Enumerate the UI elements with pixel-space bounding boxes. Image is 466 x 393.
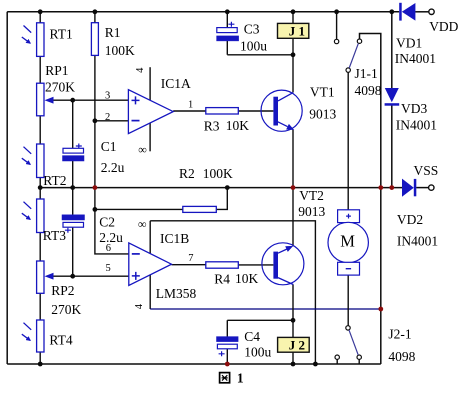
wire R4 to VT2 base bbox=[238, 264, 273, 266]
motor M bbox=[338, 210, 360, 223]
resistor R3 body bbox=[206, 108, 239, 114]
relay contact J1-1 bbox=[334, 39, 338, 43]
svg-text:4: 4 bbox=[135, 67, 146, 73]
capacitor C1 plus plate bbox=[63, 148, 84, 153]
potentiometer RP1 body bbox=[37, 83, 44, 116]
svg-text:4098: 4098 bbox=[355, 83, 382, 98]
wire IC1B power line bbox=[149, 221, 151, 309]
capacitor C3 polarity plus bbox=[228, 22, 234, 27]
terminal VDD bbox=[429, 9, 434, 14]
wire C4 node horizontal bbox=[227, 319, 293, 321]
capacitor C3 plus plate bbox=[217, 28, 237, 33]
svg-text:2: 2 bbox=[105, 112, 110, 123]
wire pin2 stub bbox=[95, 120, 128, 122]
svg-text:∞: ∞ bbox=[138, 217, 147, 231]
transistor VT1 base bar bbox=[273, 97, 278, 126]
relay contact J2-1 bbox=[346, 326, 350, 330]
wire line B right vertical bbox=[360, 34, 381, 365]
terminal VSS bbox=[429, 185, 434, 190]
svg-text:RT4: RT4 bbox=[49, 333, 72, 348]
svg-text:VT1: VT1 bbox=[310, 84, 335, 99]
svg-text:9013: 9013 bbox=[309, 106, 336, 121]
svg-text:1: 1 bbox=[188, 100, 193, 111]
light arrows RT2 bbox=[22, 147, 31, 165]
wire VT2 collector down bbox=[292, 284, 294, 337]
wire VT1 emitter to mid rail bbox=[292, 130, 294, 188]
capacitor C2 plus plate bbox=[63, 222, 84, 227]
wire line A VD3 branch bbox=[391, 12, 393, 88]
capacitor C3 minus plate bbox=[217, 36, 239, 41]
svg-text:3: 3 bbox=[105, 91, 110, 102]
svg-text:4: 4 bbox=[134, 303, 145, 309]
capacitor C1 polarity plus bbox=[76, 144, 82, 149]
wire VT2 emitter to mid rail bbox=[292, 188, 294, 247]
wire pin5 node bbox=[53, 275, 129, 277]
svg-text:R1: R1 bbox=[105, 25, 121, 40]
wire R1 column bbox=[95, 12, 129, 254]
wire IC1B output to R4 bbox=[172, 264, 206, 266]
capacitor C4 minus plate bbox=[217, 337, 239, 342]
svg-text:LM358: LM358 bbox=[156, 286, 197, 301]
light arrows RT4 bbox=[22, 323, 31, 341]
svg-text:100K: 100K bbox=[105, 43, 135, 58]
op-amp IC1B plus input sign bbox=[132, 272, 140, 280]
wire C4 column bbox=[226, 320, 228, 364]
op-amp IC1B minus input sign bbox=[132, 253, 140, 255]
wire left frame bbox=[6, 12, 8, 364]
wire IC1A output to R3 bbox=[173, 110, 206, 112]
svg-text:VD2: VD2 bbox=[397, 212, 423, 227]
svg-text:5: 5 bbox=[106, 263, 111, 274]
svg-text:J1-1: J1-1 bbox=[355, 66, 378, 81]
svg-text:RT3: RT3 bbox=[43, 228, 66, 243]
wire pin3 node bbox=[53, 99, 128, 101]
svg-text:VD1: VD1 bbox=[396, 36, 422, 51]
svg-text:RP2: RP2 bbox=[51, 283, 74, 298]
wire J2 to bottom rail bbox=[292, 352, 294, 364]
op-amp IC1A minus input sign bbox=[132, 120, 140, 122]
svg-text:R2: R2 bbox=[179, 166, 195, 181]
svg-text:RP1: RP1 bbox=[45, 63, 68, 78]
svg-text:C4: C4 bbox=[244, 329, 260, 344]
light arrows RT1 bbox=[22, 26, 31, 44]
capacitor C2 polarity plus bbox=[65, 228, 71, 233]
wire bottom rail bbox=[7, 363, 381, 365]
svg-text:270K: 270K bbox=[51, 302, 81, 317]
svg-text:J 2: J 2 bbox=[289, 337, 305, 352]
svg-text:∞: ∞ bbox=[138, 143, 147, 157]
wire C3 to VT1 collector node bbox=[227, 54, 293, 56]
capacitor C4 plus plate bbox=[217, 344, 237, 349]
svg-text:9013: 9013 bbox=[298, 204, 325, 219]
svg-text:VSS: VSS bbox=[414, 163, 439, 178]
transistor VT2 collector lead bbox=[278, 278, 293, 285]
wire C3 column bbox=[226, 12, 228, 55]
svg-text:10K: 10K bbox=[226, 118, 250, 133]
relay coil J1 box bbox=[278, 23, 309, 38]
wire IC1A power stub bbox=[149, 67, 151, 151]
node dots red bbox=[93, 185, 395, 366]
resistor R1 body bbox=[91, 23, 98, 56]
svg-text:RT1: RT1 bbox=[50, 26, 73, 41]
wire top VDD rail bbox=[7, 11, 399, 13]
svg-text:7: 7 bbox=[188, 253, 193, 264]
svg-text:2.2u: 2.2u bbox=[101, 160, 125, 175]
op-amp U1 IC1A triangle bbox=[128, 90, 173, 134]
svg-text:RT2: RT2 bbox=[43, 173, 66, 188]
wire J1-1 top contact stub bbox=[336, 12, 338, 40]
wire VSS navy horizontal bbox=[150, 308, 381, 310]
wire left column chain bbox=[39, 12, 41, 364]
svg-text:VT2: VT2 bbox=[299, 188, 324, 203]
wire C1 column bbox=[72, 100, 74, 187]
resistor R4 body bbox=[206, 262, 239, 268]
svg-text:2.2u: 2.2u bbox=[99, 230, 123, 245]
svg-text:VD3: VD3 bbox=[401, 101, 427, 116]
potentiometer RP1 wiper arrow bbox=[45, 97, 54, 104]
svg-text:IC1B: IC1B bbox=[160, 231, 189, 246]
wire VD2 to VSS terminal bbox=[416, 187, 428, 189]
resistor R2 body bbox=[183, 206, 217, 212]
potentiometer RP2 body bbox=[37, 261, 44, 293]
svg-text:4098: 4098 bbox=[388, 349, 415, 364]
svg-text:R3: R3 bbox=[204, 119, 220, 134]
op-amp U2 IC1B triangle bbox=[129, 243, 172, 286]
transistor VT1 collector lead bbox=[278, 93, 293, 101]
svg-text:C2: C2 bbox=[99, 215, 115, 230]
transistor Q1 VT1 circle bbox=[261, 90, 302, 131]
resistor RT1 photoresistor body bbox=[37, 23, 44, 57]
caption figure 1 bbox=[220, 373, 230, 383]
svg-text:100K: 100K bbox=[203, 166, 233, 181]
wire R2 right bbox=[216, 188, 227, 210]
svg-text:IN4001: IN4001 bbox=[396, 118, 437, 133]
capacitor C2 minus plate bbox=[62, 215, 85, 220]
svg-text:J2-1: J2-1 bbox=[388, 327, 411, 342]
wire motor upper bbox=[347, 72, 349, 210]
transistor Q2 VT2 circle bbox=[262, 243, 304, 285]
svg-text:C1: C1 bbox=[101, 139, 117, 154]
svg-text:100u: 100u bbox=[240, 38, 267, 53]
op-amp IC1A plus input sign bbox=[132, 96, 140, 104]
svg-text:100u: 100u bbox=[244, 344, 271, 359]
resistor RT4 photoresistor body bbox=[37, 320, 44, 352]
svg-text:270K: 270K bbox=[45, 80, 75, 95]
svg-text:IN4001: IN4001 bbox=[397, 234, 438, 249]
relay coil J2 box bbox=[278, 337, 310, 352]
wire C2 column bbox=[72, 188, 74, 277]
wire line A below VD3 bbox=[391, 105, 393, 187]
light arrows RT3 bbox=[22, 202, 31, 220]
transistor VT1 emitter lead with arrow bbox=[278, 122, 288, 127]
svg-text:IN4001: IN4001 bbox=[395, 51, 436, 66]
transistor VT2 base bar bbox=[273, 252, 278, 279]
svg-text:M: M bbox=[340, 232, 355, 251]
svg-text:J 1: J 1 bbox=[289, 23, 305, 38]
svg-text:IC1A: IC1A bbox=[161, 76, 191, 91]
svg-text:C3: C3 bbox=[244, 22, 260, 37]
wire R2 left bbox=[95, 208, 183, 210]
potentiometer RP2 wiper arrow bbox=[45, 273, 54, 280]
wire IC1B pin8 to bottom rail bbox=[150, 221, 315, 364]
capacitor C1 minus plate bbox=[63, 156, 85, 161]
node dots black bbox=[38, 9, 394, 366]
svg-text:1: 1 bbox=[237, 371, 244, 386]
transistor VT2 emitter lead with arrow bbox=[278, 249, 287, 253]
wire R3 to VT1 base bbox=[238, 110, 273, 112]
capacitor C4 polarity plus bbox=[219, 351, 225, 356]
wire motor lower bbox=[347, 275, 349, 326]
resistor RT2 photoresistor body bbox=[37, 144, 44, 178]
diode VD2 bbox=[402, 179, 414, 197]
svg-text:VDD: VDD bbox=[429, 19, 458, 34]
diode VD1 bbox=[399, 3, 402, 21]
wire J2-1 contact stubs bbox=[337, 359, 359, 364]
svg-text:R4: R4 bbox=[214, 272, 230, 287]
resistor RT3 photoresistor body bbox=[37, 199, 44, 233]
svg-text:6: 6 bbox=[106, 243, 111, 254]
svg-text:10K: 10K bbox=[235, 271, 259, 286]
wire J1 column top bbox=[292, 12, 294, 24]
wire VD1 to VDD terminal bbox=[415, 11, 429, 13]
wire mid rail VSS net bbox=[40, 187, 402, 189]
diode VD3 bbox=[385, 88, 399, 102]
wire J1 to VT1 collector bbox=[292, 37, 294, 92]
